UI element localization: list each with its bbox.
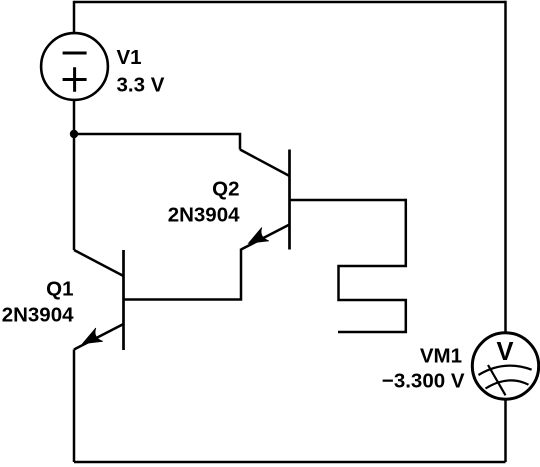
- wire Q2 emitter to Q1 base: [124, 249, 242, 300]
- wire V1 bottom lead to node: [73, 99, 76, 134]
- wire right rail: [504, 1, 507, 333]
- label Q2 value 2N3904: [168, 204, 240, 227]
- voltmeter VM1: [472, 333, 538, 399]
- wire top rail: [74, 1, 506, 4]
- svg-text:V1: V1: [117, 46, 142, 69]
- svg-text:2N3904: 2N3904: [2, 304, 74, 327]
- wire bottom rail: [74, 461, 506, 464]
- svg-text:Q2: Q2: [212, 178, 239, 201]
- junction node dot: [70, 130, 78, 138]
- svg-text:V: V: [496, 338, 513, 366]
- svg-text:2N3904: 2N3904: [168, 204, 240, 227]
- transistor Q2: [240, 150, 290, 250]
- svg-text:Q1: Q1: [46, 278, 73, 301]
- voltage source V1: [41, 33, 108, 100]
- wire meander from Q2 base: [338, 199, 406, 332]
- label Q1 name: [46, 278, 73, 301]
- label VM1 value -3.300 V: [382, 370, 465, 393]
- label Q1 value 2N3904: [2, 304, 74, 327]
- label V1 value 3.3 V: [117, 73, 165, 96]
- svg-text:3.3 V: 3.3 V: [117, 73, 165, 96]
- wire node to Q1 collector: [73, 134, 76, 250]
- label VM1 name: [420, 344, 462, 367]
- label Q2 name: [212, 178, 239, 201]
- wire node to Q2 collector: [74, 134, 240, 150]
- transistor Q1: [74, 250, 124, 350]
- wire V1 top lead: [73, 1, 76, 34]
- svg-text:VM1: VM1: [420, 344, 462, 367]
- label V1 name: [117, 46, 142, 69]
- wire Q1 emitter to bottom rail: [73, 350, 76, 463]
- svg-text:−3.300 V: −3.300 V: [382, 370, 465, 393]
- wire Q2 base lead: [290, 199, 406, 202]
- wire VM1 to bottom rail: [504, 399, 507, 463]
